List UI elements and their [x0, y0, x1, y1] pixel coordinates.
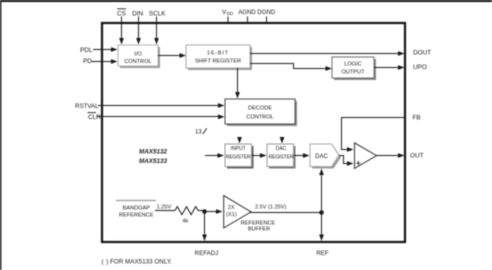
svg-text:CLR: CLR: [88, 114, 101, 121]
svg-text:OUT: OUT: [410, 152, 424, 159]
svg-text:INPUT: INPUT: [231, 146, 246, 152]
svg-text:16-BIT: 16-BIT: [207, 51, 229, 57]
svg-text:RSTVAL: RSTVAL: [75, 103, 99, 110]
svg-text:UPO: UPO: [413, 64, 427, 71]
svg-text:SCLK: SCLK: [149, 10, 166, 17]
svg-text:OUTPUT: OUTPUT: [342, 70, 366, 76]
svg-text:REFERENCE: REFERENCE: [241, 220, 276, 226]
svg-text:DAC: DAC: [315, 154, 328, 160]
svg-text:( ) FOR MAX5133 ONLY.: ( ) FOR MAX5133 ONLY.: [102, 258, 173, 265]
svg-text:DIN: DIN: [132, 10, 143, 17]
svg-text:DD: DD: [227, 11, 234, 16]
svg-text:DGND: DGND: [257, 9, 276, 16]
svg-text:REFERENCE: REFERENCE: [119, 212, 154, 218]
svg-text:FB: FB: [413, 115, 421, 122]
svg-text:REFADJ: REFADJ: [195, 250, 219, 257]
svg-text:PD: PD: [83, 58, 92, 65]
svg-text:CONTROL: CONTROL: [246, 114, 273, 120]
svg-text:CS: CS: [117, 10, 126, 17]
svg-text:AGND: AGND: [238, 9, 256, 16]
svg-text:1.25V: 1.25V: [157, 205, 172, 211]
svg-text:SHIFT REGISTER: SHIFT REGISTER: [195, 59, 241, 65]
svg-text:LOGIC: LOGIC: [344, 62, 361, 68]
svg-text:REGISTER: REGISTER: [226, 155, 251, 161]
svg-text:CONTROL: CONTROL: [124, 59, 151, 65]
svg-text:2X: 2X: [228, 205, 235, 211]
svg-text:BANDGAP: BANDGAP: [123, 205, 151, 211]
svg-text:4k: 4k: [182, 219, 188, 225]
svg-text:REGISTER: REGISTER: [269, 155, 294, 161]
svg-text:DAC: DAC: [276, 146, 287, 152]
svg-text:REF: REF: [316, 250, 329, 257]
svg-text:DECODE: DECODE: [248, 106, 272, 112]
svg-text:MAX5132: MAX5132: [139, 149, 167, 156]
svg-text:PDL: PDL: [80, 47, 93, 54]
svg-text:I/O: I/O: [134, 52, 142, 58]
svg-text:(X1): (X1): [226, 212, 237, 218]
svg-text:2.5V (1.25V): 2.5V (1.25V): [255, 204, 287, 210]
svg-text:BUFFER: BUFFER: [248, 227, 270, 233]
svg-text:MAX5133: MAX5133: [139, 158, 167, 165]
svg-text:13: 13: [195, 130, 202, 136]
svg-text:DOUT: DOUT: [413, 50, 431, 57]
